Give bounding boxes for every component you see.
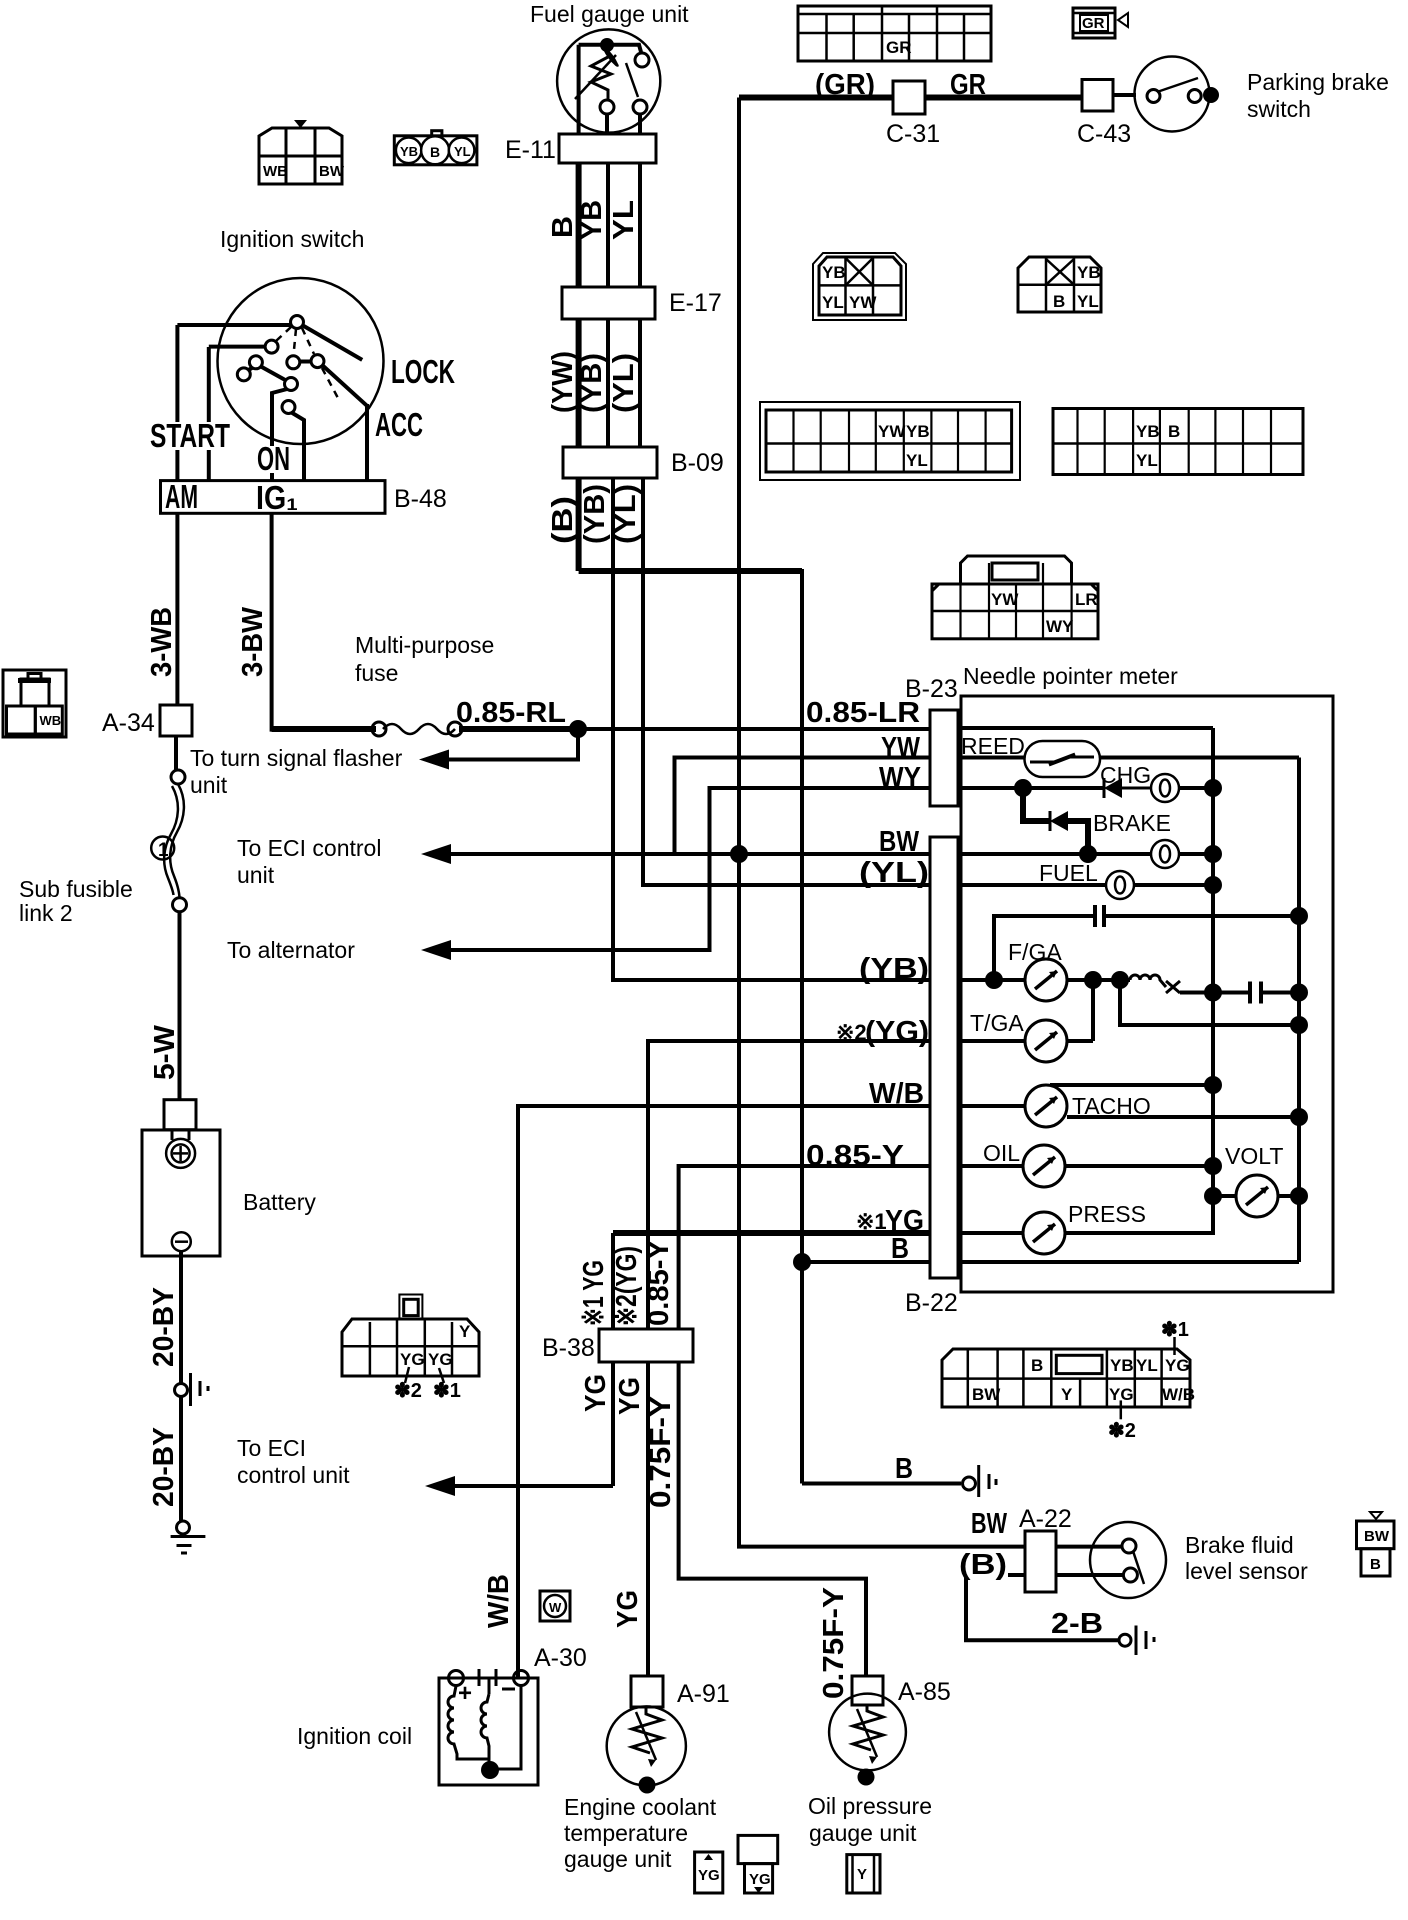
svg-text:C-31: C-31 <box>886 120 940 148</box>
svg-text:20-BY: 20-BY <box>148 1287 180 1367</box>
svg-text:control unit: control unit <box>237 1462 350 1488</box>
svg-text:(YL): (YL) <box>608 353 640 413</box>
svg-text:temperature: temperature <box>564 1820 688 1846</box>
svg-text:YL: YL <box>1136 451 1158 470</box>
svg-text:BW: BW <box>972 1385 1001 1404</box>
svg-text:✽1: ✽1 <box>433 1380 461 1402</box>
svg-text:(YB): (YB) <box>859 953 929 985</box>
svg-text:✽2: ✽2 <box>1108 1420 1136 1442</box>
svg-text:ON: ON <box>257 440 290 477</box>
svg-text:3-WB: 3-WB <box>146 607 178 677</box>
svg-text:(YB): (YB) <box>579 484 611 544</box>
svg-text:B: B <box>1168 422 1180 441</box>
svg-text:C-43: C-43 <box>1077 120 1131 148</box>
svg-text:To turn signal flasher: To turn signal flasher <box>190 745 403 771</box>
svg-text:YG: YG <box>428 1350 453 1369</box>
svg-text:2-B: 2-B <box>1051 1608 1103 1640</box>
svg-text:Battery: Battery <box>243 1189 316 1215</box>
svg-text:(YB): (YB) <box>576 353 608 413</box>
svg-text:※2: ※2 <box>836 1020 867 1045</box>
svg-text:YG: YG <box>749 1871 771 1888</box>
svg-text:To alternator: To alternator <box>227 937 355 963</box>
svg-text:1: 1 <box>158 840 169 861</box>
svg-text:Sub fusible: Sub fusible <box>19 876 133 902</box>
svg-text:level sensor: level sensor <box>1185 1558 1308 1584</box>
svg-text:link 2: link 2 <box>19 900 73 926</box>
svg-text:VOLT: VOLT <box>1225 1143 1283 1169</box>
svg-text:B: B <box>430 144 440 160</box>
svg-text:YB: YB <box>906 422 930 441</box>
svg-text:YL: YL <box>608 200 640 240</box>
svg-text:BW: BW <box>319 163 345 180</box>
svg-text:LOCK: LOCK <box>391 353 455 390</box>
svg-text:B-22: B-22 <box>905 1289 958 1317</box>
svg-text:W/B: W/B <box>1162 1385 1195 1404</box>
svg-text:T/GA: T/GA <box>970 1010 1024 1036</box>
svg-text:To ECI control: To ECI control <box>237 835 381 861</box>
svg-text:E-17: E-17 <box>669 289 722 317</box>
svg-text:BW: BW <box>879 826 920 858</box>
svg-text:B: B <box>547 216 579 238</box>
svg-text:YL: YL <box>1077 292 1099 311</box>
svg-text:(YG): (YG) <box>865 1016 929 1048</box>
svg-text:WY: WY <box>879 762 921 794</box>
svg-text:YW: YW <box>881 732 921 764</box>
svg-text:YB: YB <box>1110 1356 1134 1375</box>
svg-text:(YL): (YL) <box>859 857 929 889</box>
svg-text:W/B: W/B <box>483 1574 515 1628</box>
svg-text:YW: YW <box>878 422 906 441</box>
svg-text:YG: YG <box>580 1374 612 1412</box>
svg-text:✽1: ✽1 <box>1161 1319 1189 1341</box>
svg-text:(B): (B) <box>959 1549 1007 1581</box>
svg-text:WB: WB <box>40 713 62 728</box>
svg-text:YB: YB <box>1136 422 1160 441</box>
svg-text:YL: YL <box>906 451 928 470</box>
svg-text:B-09: B-09 <box>671 449 724 477</box>
svg-text:AM: AM <box>165 478 198 515</box>
svg-text:Needle pointer meter: Needle pointer meter <box>963 663 1178 689</box>
svg-text:B: B <box>891 1233 909 1265</box>
svg-text:Y: Y <box>1061 1385 1073 1404</box>
svg-text:unit: unit <box>190 772 228 798</box>
svg-text:0.85-Y: 0.85-Y <box>806 1140 904 1172</box>
svg-text:B: B <box>1053 292 1065 311</box>
svg-text:GR: GR <box>1082 15 1105 32</box>
svg-text:0.75F-Y: 0.75F-Y <box>645 1396 677 1508</box>
svg-text:Multi-purpose: Multi-purpose <box>355 632 494 658</box>
svg-text:switch: switch <box>1247 96 1311 122</box>
svg-text:TACHO: TACHO <box>1072 1093 1151 1119</box>
svg-text:YG: YG <box>1165 1356 1190 1375</box>
svg-text:BW: BW <box>1364 1528 1390 1545</box>
svg-text:A-22: A-22 <box>1019 1505 1072 1533</box>
svg-text:BRAKE: BRAKE <box>1093 810 1171 836</box>
svg-text:W: W <box>549 1600 562 1615</box>
svg-text:(B): (B) <box>547 496 579 544</box>
svg-text:IG₁: IG₁ <box>256 479 298 516</box>
svg-text:gauge unit: gauge unit <box>809 1820 917 1846</box>
svg-text:B-38: B-38 <box>542 1334 595 1362</box>
svg-text:YG: YG <box>614 1377 646 1415</box>
svg-text:A-85: A-85 <box>898 1678 951 1706</box>
svg-text:CHG: CHG <box>1100 762 1151 788</box>
svg-text:Brake fluid: Brake fluid <box>1185 1532 1294 1558</box>
svg-text:B: B <box>1031 1356 1043 1375</box>
svg-text:YW: YW <box>991 590 1019 609</box>
svg-text:Parking brake: Parking brake <box>1247 69 1389 95</box>
svg-text:START: START <box>150 417 230 454</box>
svg-text:Oil pressure: Oil pressure <box>808 1793 932 1819</box>
svg-text:WB: WB <box>263 163 288 180</box>
svg-text:Y: Y <box>459 1322 471 1341</box>
svg-text:Ignition switch: Ignition switch <box>220 226 364 252</box>
svg-text:YL: YL <box>454 144 471 159</box>
svg-text:YW: YW <box>849 293 877 312</box>
svg-text:REED: REED <box>961 733 1025 759</box>
svg-text:To ECI: To ECI <box>237 1435 306 1461</box>
svg-text:B: B <box>895 1453 913 1485</box>
svg-text:FUEL: FUEL <box>1039 860 1098 886</box>
svg-text:✽2: ✽2 <box>394 1380 422 1402</box>
svg-text:※1 YG: ※1 YG <box>578 1260 610 1326</box>
svg-text:YB: YB <box>400 144 418 159</box>
svg-text:A-30: A-30 <box>534 1644 587 1672</box>
svg-text:YL: YL <box>822 293 844 312</box>
svg-text:Fuel gauge unit: Fuel gauge unit <box>530 1 689 27</box>
svg-text:※1: ※1 <box>856 1209 887 1234</box>
svg-text:W/B: W/B <box>869 1078 924 1110</box>
svg-text:Engine coolant: Engine coolant <box>564 1794 717 1820</box>
svg-text:fuse: fuse <box>355 660 398 686</box>
svg-text:YG: YG <box>612 1590 644 1628</box>
svg-text:Ignition coil: Ignition coil <box>297 1723 412 1749</box>
svg-text:A-91: A-91 <box>677 1680 730 1708</box>
svg-text:YB: YB <box>822 263 846 282</box>
svg-text:unit: unit <box>237 862 275 888</box>
svg-text:(YL): (YL) <box>610 484 642 544</box>
svg-text:YB: YB <box>576 200 608 240</box>
svg-text:5-W: 5-W <box>149 1024 181 1080</box>
svg-text:E-11: E-11 <box>505 136 556 164</box>
svg-text:F/GA: F/GA <box>1008 939 1062 965</box>
svg-text:LR: LR <box>1075 590 1098 609</box>
svg-text:gauge unit: gauge unit <box>564 1846 672 1872</box>
svg-text:ACC: ACC <box>375 406 423 443</box>
svg-text:B-48: B-48 <box>394 485 447 513</box>
svg-text:0.85-RL: 0.85-RL <box>456 697 566 729</box>
svg-text:WY: WY <box>1046 617 1074 636</box>
svg-text:YL: YL <box>1136 1356 1158 1375</box>
svg-text:20-BY: 20-BY <box>148 1427 180 1507</box>
svg-text:3-BW: 3-BW <box>237 606 269 677</box>
svg-text:BW: BW <box>971 1508 1007 1540</box>
svg-text:0.75F-Y: 0.75F-Y <box>818 1587 850 1699</box>
svg-text:Y: Y <box>857 1866 867 1883</box>
svg-text:PRESS: PRESS <box>1068 1201 1146 1227</box>
svg-text:YB: YB <box>1077 263 1101 282</box>
svg-text:YG: YG <box>400 1350 425 1369</box>
svg-text:(YW): (YW) <box>547 351 579 413</box>
svg-text:GR: GR <box>886 38 912 57</box>
svg-text:※2(YG): ※2(YG) <box>611 1246 643 1326</box>
svg-text:0.85-LR: 0.85-LR <box>806 697 920 729</box>
svg-text:B: B <box>1370 1556 1381 1573</box>
svg-text:OIL: OIL <box>983 1140 1020 1166</box>
svg-text:YG: YG <box>698 1867 720 1884</box>
svg-text:0.85-Y: 0.85-Y <box>643 1240 675 1326</box>
svg-text:A-34: A-34 <box>102 709 155 737</box>
